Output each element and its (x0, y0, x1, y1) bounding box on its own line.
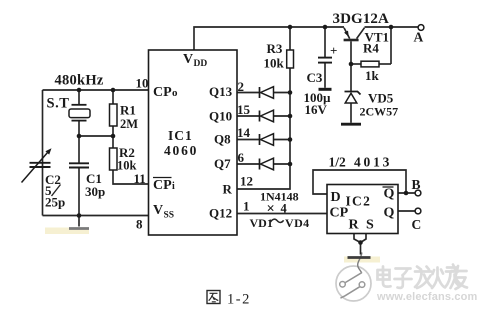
svg-text:6: 6 (238, 150, 245, 165)
svg-text:o: o (172, 87, 178, 99)
svg-text:2M: 2M (120, 117, 138, 131)
svg-text:+: + (330, 43, 337, 58)
svg-text:DD: DD (194, 59, 208, 69)
svg-text:12: 12 (240, 174, 253, 189)
svg-text:A: A (414, 30, 424, 45)
svg-text:4060: 4060 (164, 143, 198, 158)
svg-text:14: 14 (237, 125, 251, 140)
svg-text:VD1: VD1 (250, 216, 273, 230)
svg-text:i: i (172, 181, 175, 192)
svg-text:30p: 30p (85, 184, 105, 199)
svg-text:10: 10 (136, 76, 149, 91)
svg-text:11: 11 (134, 171, 146, 186)
svg-text:VD4: VD4 (285, 216, 310, 230)
svg-text:10k: 10k (264, 56, 285, 71)
svg-text:Q13: Q13 (209, 84, 233, 99)
svg-text:www.elecfans.com: www.elecfans.com (376, 291, 477, 303)
svg-text:B: B (412, 177, 421, 192)
svg-text:4013: 4013 (354, 155, 392, 170)
svg-text:R3: R3 (267, 41, 283, 56)
svg-text:R: R (349, 218, 360, 233)
svg-text:8: 8 (136, 217, 143, 232)
svg-text:1/2: 1/2 (329, 155, 347, 170)
svg-text:CP: CP (330, 206, 349, 221)
svg-text:480kHz: 480kHz (55, 73, 104, 89)
svg-text:Q7: Q7 (214, 156, 231, 171)
svg-text:Q10: Q10 (209, 109, 232, 124)
svg-text:Q12: Q12 (209, 206, 232, 221)
svg-text:Q: Q (384, 206, 395, 221)
svg-text:2: 2 (238, 79, 245, 94)
svg-text:15: 15 (237, 102, 251, 117)
svg-text:S: S (366, 218, 374, 233)
svg-text:1k: 1k (365, 68, 380, 83)
svg-text:CP: CP (153, 178, 172, 193)
svg-text:1: 1 (243, 199, 250, 214)
svg-text:3DG12A: 3DG12A (333, 11, 389, 27)
svg-text:V: V (153, 203, 163, 218)
svg-text:S.T: S.T (47, 96, 70, 112)
svg-text:C3: C3 (307, 70, 323, 85)
svg-text:×: × (267, 201, 275, 217)
svg-text:V: V (183, 52, 193, 67)
svg-text:Q: Q (384, 187, 395, 202)
svg-text:C: C (412, 217, 422, 232)
svg-text:Q8: Q8 (214, 132, 231, 147)
svg-text:2CW57: 2CW57 (360, 105, 399, 119)
svg-text:CP: CP (153, 85, 172, 100)
svg-text:D: D (331, 190, 341, 205)
svg-text:25p: 25p (45, 195, 65, 210)
svg-text:R: R (223, 182, 233, 197)
svg-text:VD5: VD5 (368, 91, 394, 106)
svg-text:1-2: 1-2 (227, 292, 251, 308)
svg-text:IC1: IC1 (168, 128, 193, 143)
svg-text:IC2: IC2 (346, 194, 372, 209)
svg-text:16V: 16V (305, 102, 328, 117)
svg-text:SS: SS (164, 211, 175, 221)
svg-text:4: 4 (281, 202, 288, 216)
svg-text:R1: R1 (120, 103, 136, 118)
svg-text:R4: R4 (363, 41, 379, 56)
